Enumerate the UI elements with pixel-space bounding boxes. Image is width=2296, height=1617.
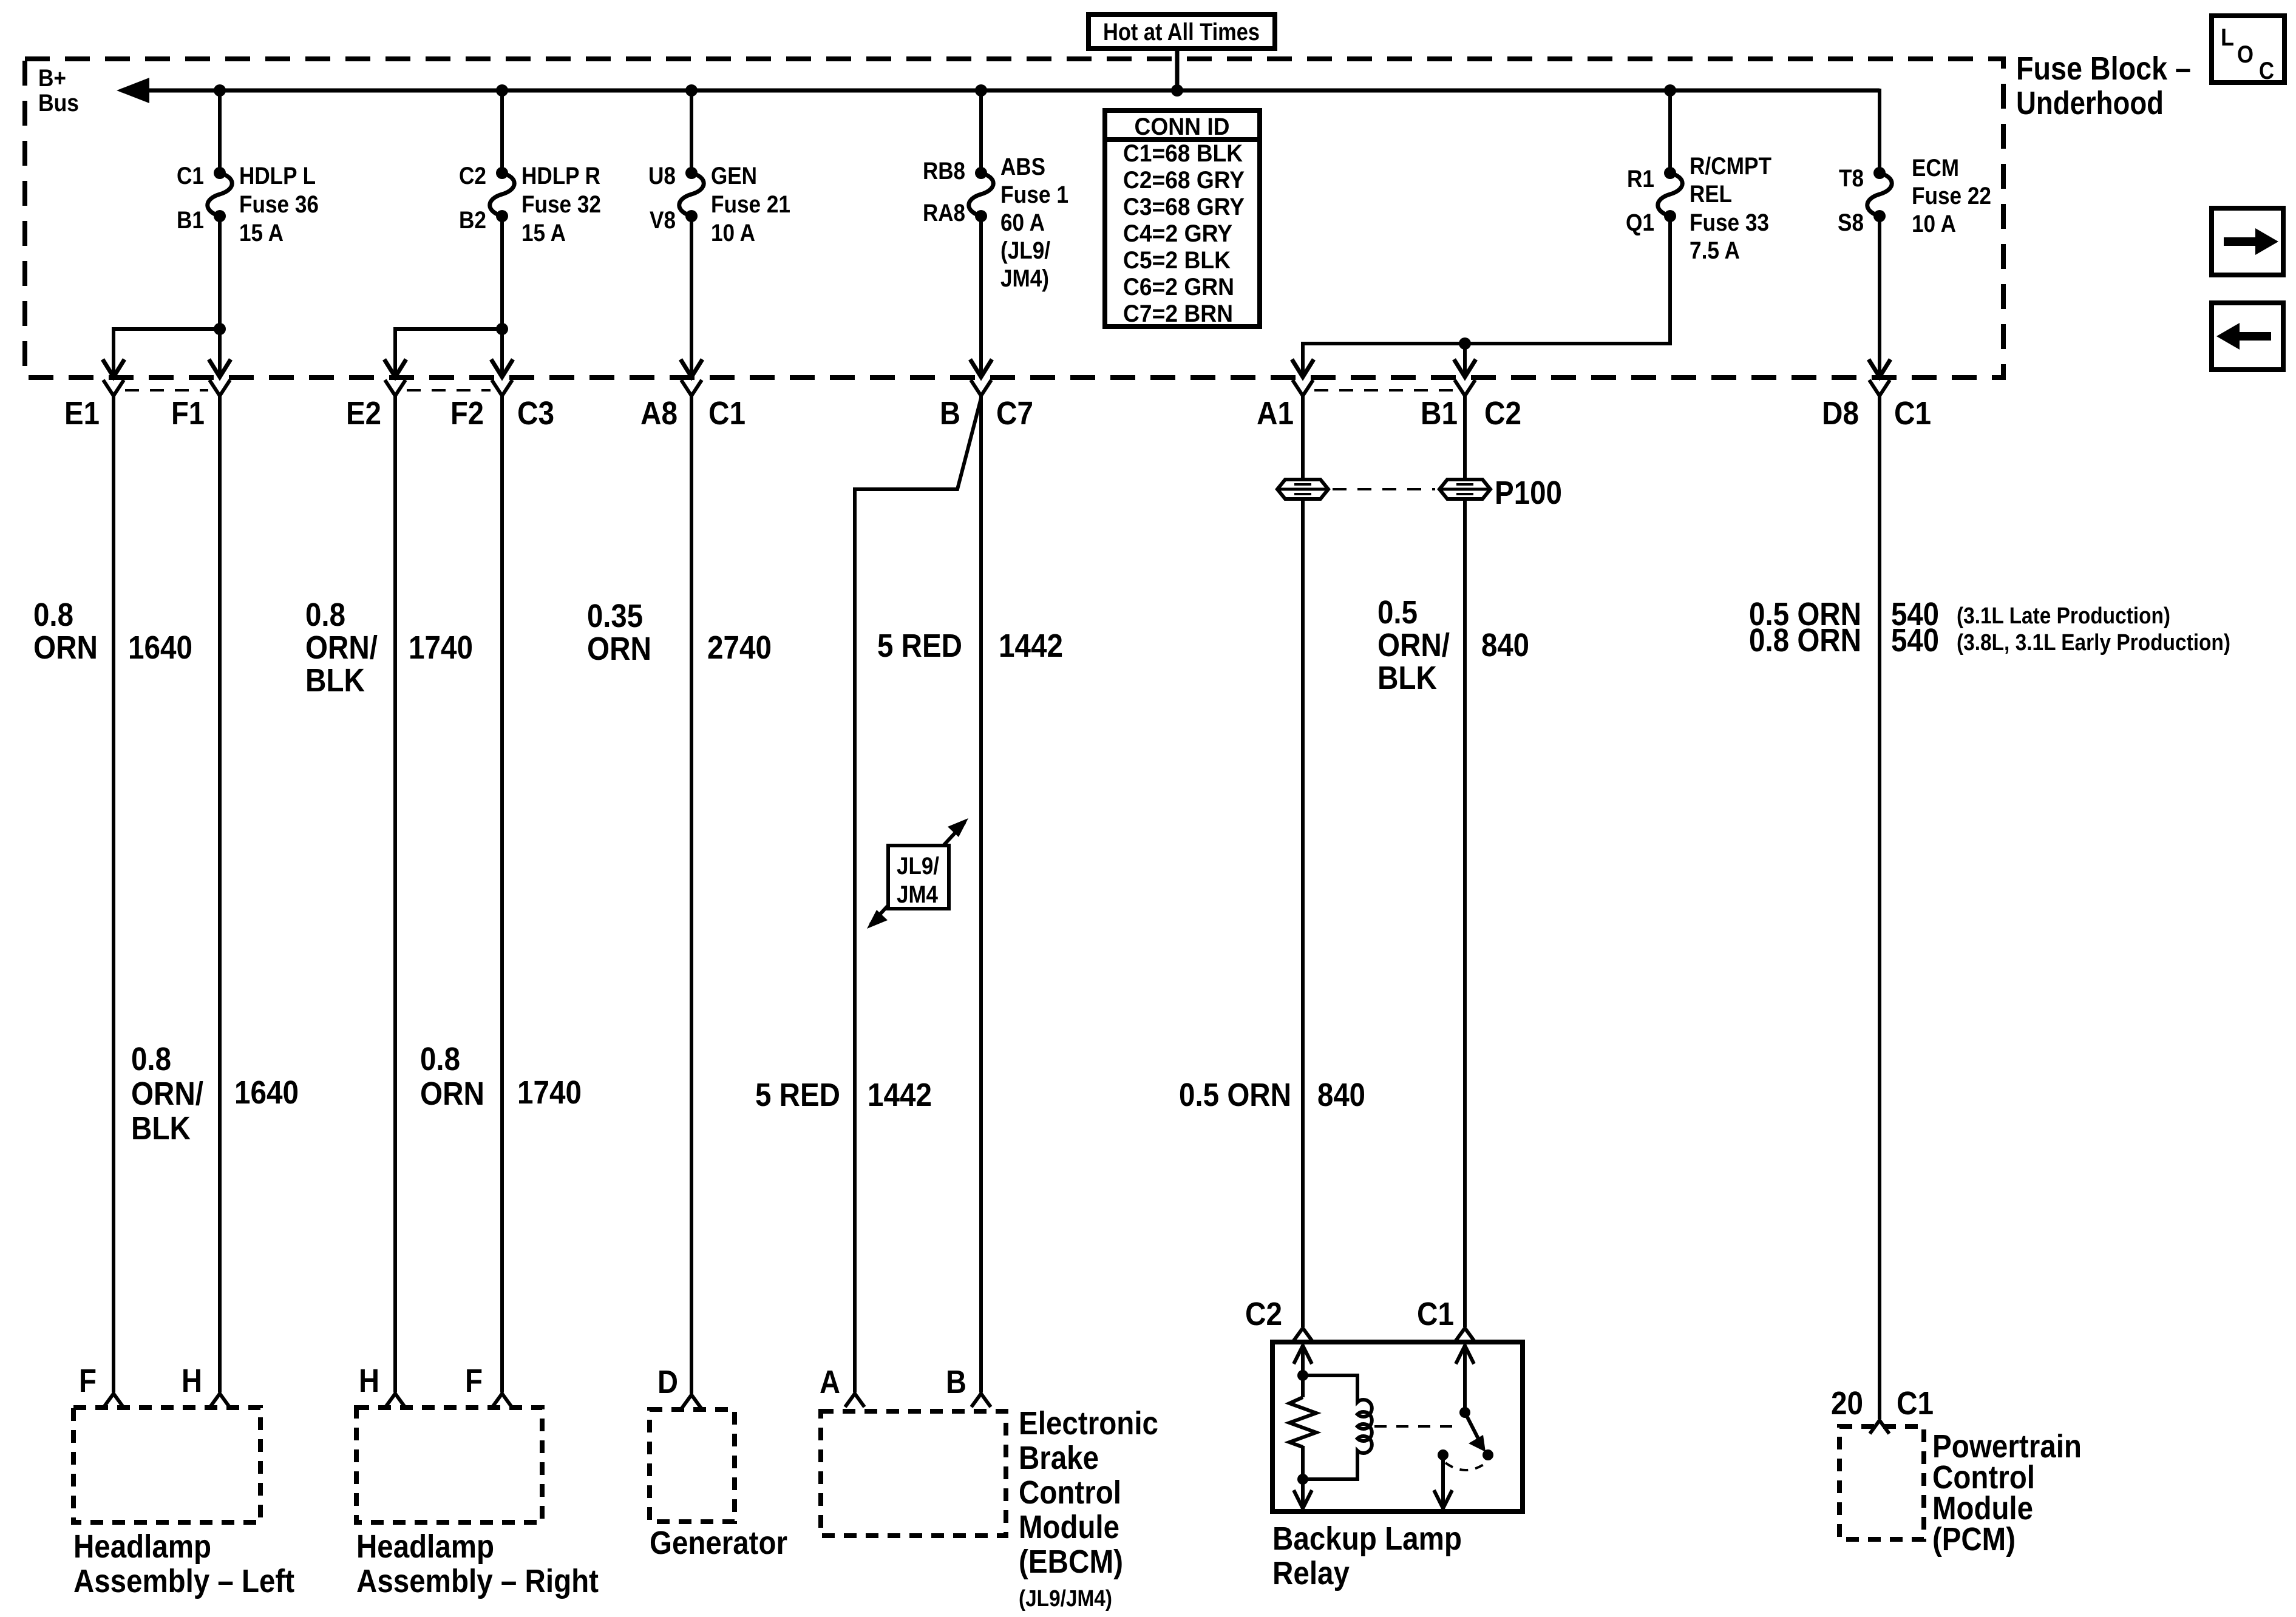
svg-text:A8: A8 xyxy=(640,395,678,432)
svg-text:Generator: Generator xyxy=(650,1525,787,1561)
B+ Bus arrowhead (left) xyxy=(117,78,149,103)
svg-text:(JL9/: (JL9/ xyxy=(1000,237,1050,264)
svg-text:ORN/: ORN/ xyxy=(305,629,378,666)
svg-text:1442: 1442 xyxy=(868,1077,932,1113)
wire 1442 branch jog to EBCM A xyxy=(855,398,981,1392)
svg-text:H: H xyxy=(182,1363,202,1399)
connector F2 (female) xyxy=(492,380,512,396)
EBCM dashed box xyxy=(821,1411,1006,1536)
svg-text:Bus: Bus xyxy=(38,90,79,117)
svg-text:0.8: 0.8 xyxy=(420,1041,460,1077)
svg-text:0.8: 0.8 xyxy=(305,597,345,633)
svg-text:H: H xyxy=(359,1363,379,1399)
svg-text:C5=2 BLK: C5=2 BLK xyxy=(1123,247,1231,274)
svg-text:1442: 1442 xyxy=(999,628,1063,664)
svg-text:840: 840 xyxy=(1481,627,1529,663)
svg-text:C1: C1 xyxy=(1417,1296,1454,1332)
pin 20 PCM (male) xyxy=(1870,1420,1889,1434)
relay coil-side pin wire with arrows xyxy=(1301,1345,1305,1397)
svg-text:Headlamp: Headlamp xyxy=(73,1528,211,1565)
wire 1640 E1 to headlamp left F xyxy=(112,396,115,1392)
svg-text:C2: C2 xyxy=(1245,1296,1282,1332)
connector B1 (female) xyxy=(1455,380,1475,396)
svg-text:Fuse 21: Fuse 21 xyxy=(711,191,790,218)
wire arrowhead into fuse block border at x=1616 xyxy=(970,359,992,377)
page-back arrow box xyxy=(2212,303,2283,370)
svg-text:P100: P100 xyxy=(1495,475,1562,511)
svg-text:5 RED: 5 RED xyxy=(755,1077,840,1113)
svg-text:E1: E1 xyxy=(64,395,100,432)
connector B/C7 (female) xyxy=(971,380,991,396)
svg-text:BLK: BLK xyxy=(1377,660,1437,696)
svg-text:1740: 1740 xyxy=(517,1074,582,1111)
connector F1 (female) xyxy=(209,380,230,396)
page-forward arrow box xyxy=(2212,208,2283,275)
svg-text:1640: 1640 xyxy=(128,629,192,666)
svg-text:0.8: 0.8 xyxy=(33,597,73,633)
svg-text:540: 540 xyxy=(1891,622,1939,659)
svg-text:R/CMPT: R/CMPT xyxy=(1690,153,1771,180)
svg-text:0.5 ORN: 0.5 ORN xyxy=(1179,1077,1291,1113)
svg-text:C4=2 GRY: C4=2 GRY xyxy=(1123,220,1232,247)
svg-text:60 A: 60 A xyxy=(1000,209,1045,236)
wire bus corner to ECM fuse xyxy=(1878,89,1881,173)
svg-text:ECM: ECM xyxy=(1912,155,1959,181)
LOC reference box xyxy=(2212,16,2284,83)
node: relay coil bottom junction xyxy=(1297,1474,1308,1485)
svg-text:C1: C1 xyxy=(177,163,204,189)
P100 pass-through grommet x=2146 xyxy=(1277,480,1328,499)
svg-text:C3: C3 xyxy=(517,395,554,432)
svg-text:10 A: 10 A xyxy=(711,220,755,246)
wire 840 A1 to backup lamp relay C2 xyxy=(1301,396,1305,480)
node: bus junction dot x=827 xyxy=(496,84,508,97)
connector E2 (female) xyxy=(385,380,406,396)
svg-text:B1: B1 xyxy=(1421,395,1458,432)
Fuse Block - Underhood dashed boundary xyxy=(25,59,2003,378)
wire branch to E1 xyxy=(114,329,220,377)
svg-text:C3=68 GRY: C3=68 GRY xyxy=(1123,194,1245,220)
wire arrowhead into fuse block border at x=3096 xyxy=(1869,359,1890,377)
svg-text:(3.1L Late Production): (3.1L Late Production) xyxy=(1957,603,2170,629)
wire arrowhead into fuse block border at x=1139 xyxy=(681,359,702,377)
svg-text:5 RED: 5 RED xyxy=(877,628,962,664)
svg-text:ORN: ORN xyxy=(33,629,98,666)
JL9/JM4 applicability arrow xyxy=(871,822,965,924)
svg-text:S8: S8 xyxy=(1838,209,1864,236)
connector pair dashed link A1-B1 xyxy=(1314,389,1453,392)
node: junction dot hot feed on bus xyxy=(1171,84,1183,97)
svg-text:C1: C1 xyxy=(1897,1385,1934,1422)
svg-text:Fuse 1: Fuse 1 xyxy=(1000,181,1068,208)
Generator dashed box xyxy=(650,1409,735,1522)
wire bus to GEN fuse xyxy=(690,90,693,173)
CONN ID table box xyxy=(1105,110,1260,327)
svg-text:Fuse 32: Fuse 32 xyxy=(521,191,601,218)
svg-text:JM4: JM4 xyxy=(897,881,939,908)
svg-text:ORN/: ORN/ xyxy=(1377,627,1450,663)
node: fuse 32 output junction xyxy=(496,323,508,335)
fuse HDLP R C2/B2 xyxy=(459,163,601,246)
svg-text:Module: Module xyxy=(1019,1509,1119,1545)
Hot at All Times box xyxy=(1089,15,1275,49)
svg-text:(3.8L, 3.1L Early Production): (3.8L, 3.1L Early Production) xyxy=(1957,630,2230,656)
node: bus junction dot x=2751 xyxy=(1664,84,1676,97)
node: bus junction dot x=1139 xyxy=(685,84,698,97)
svg-text:B: B xyxy=(940,395,960,432)
wire from Hot at All Times box to B+ bus xyxy=(1175,49,1180,90)
wire fuse 21 output xyxy=(690,216,693,377)
node: junction dot on A1/B1 feed xyxy=(1459,337,1471,350)
wire branch to E2 xyxy=(395,329,502,377)
svg-text:Backup Lamp: Backup Lamp xyxy=(1272,1520,1462,1557)
svg-text:GEN: GEN xyxy=(711,163,757,189)
wire arrowhead into fuse block border at x=651 xyxy=(384,359,406,377)
svg-text:B+: B+ xyxy=(38,65,66,92)
svg-text:BLK: BLK xyxy=(131,1110,191,1147)
svg-text:C2: C2 xyxy=(1484,395,1521,432)
P100 dashed link between grommets xyxy=(1333,488,1435,490)
wire bus to HDLP L fuse xyxy=(218,90,222,173)
svg-text:A: A xyxy=(820,1364,840,1400)
svg-text:Assembly – Right: Assembly – Right xyxy=(356,1563,599,1599)
svg-text:Fuse 22: Fuse 22 xyxy=(1912,183,1991,209)
PCM dashed box xyxy=(1839,1426,1924,1539)
fuse HDLP L C1/B1 xyxy=(177,163,319,246)
wire arrowhead into fuse block border at x=2413 xyxy=(1454,359,1476,377)
svg-text:T8: T8 xyxy=(1839,165,1864,192)
svg-text:Relay: Relay xyxy=(1272,1555,1350,1592)
wire branch to B1 xyxy=(1463,344,1467,377)
node: bus junction dot x=362 xyxy=(214,84,226,97)
svg-text:0.8 ORN: 0.8 ORN xyxy=(1749,622,1861,659)
pin B EBCM (male) xyxy=(971,1394,991,1407)
Headlamp Assembly - Left dashed box xyxy=(73,1408,260,1522)
svg-text:REL: REL xyxy=(1690,181,1732,208)
svg-text:20: 20 xyxy=(1831,1385,1863,1422)
svg-text:BLK: BLK xyxy=(305,662,365,699)
svg-text:Fuse 36: Fuse 36 xyxy=(239,191,319,218)
svg-text:(PCM): (PCM) xyxy=(1932,1521,2016,1558)
svg-text:F2: F2 xyxy=(450,395,484,432)
svg-text:0.35: 0.35 xyxy=(587,598,643,634)
svg-text:RA8: RA8 xyxy=(923,200,965,226)
resistor (relay suppression) xyxy=(1289,1397,1316,1447)
svg-text:7.5 A: 7.5 A xyxy=(1690,237,1740,264)
fuse R/CMPT R1/Q1 xyxy=(1626,153,1771,264)
svg-text:C: C xyxy=(2259,58,2274,84)
svg-text:Brake: Brake xyxy=(1019,1440,1099,1476)
node: relay coil top junction xyxy=(1297,1370,1308,1381)
svg-text:E2: E2 xyxy=(346,395,381,432)
svg-text:B: B xyxy=(946,1364,966,1400)
svg-text:F1: F1 xyxy=(171,395,205,432)
node: relay moving contact xyxy=(1483,1449,1493,1460)
svg-text:ORN: ORN xyxy=(587,631,651,667)
B+ Bus wire (horizontal) xyxy=(121,89,1880,93)
svg-text:ABS: ABS xyxy=(1000,154,1045,180)
svg-text:B1: B1 xyxy=(177,207,204,234)
wire bus to ABS fuse xyxy=(979,90,983,173)
pin A EBCM (male) xyxy=(845,1394,864,1407)
connector D8 (female) xyxy=(1869,380,1890,396)
svg-text:A1: A1 xyxy=(1257,395,1294,432)
fuse ECM T8/S8 xyxy=(1838,155,1991,237)
svg-text:15 A: 15 A xyxy=(521,220,566,246)
connector A1 (female) xyxy=(1292,380,1313,396)
connector E1 (female) xyxy=(103,380,124,396)
svg-text:D8: D8 xyxy=(1822,395,1859,432)
wire 1640 F1 to headlamp left H xyxy=(218,396,222,1392)
svg-text:JM4): JM4) xyxy=(1000,265,1049,292)
wire 1442 B/C7 to EBCM B xyxy=(979,396,983,1392)
svg-text:ORN: ORN xyxy=(420,1076,484,1112)
svg-text:Hot at All Times: Hot at All Times xyxy=(1103,19,1260,46)
svg-text:U8: U8 xyxy=(648,163,676,189)
svg-text:L: L xyxy=(2221,24,2234,51)
svg-text:F: F xyxy=(465,1363,483,1399)
wire 540 D8 to PCM pin 20 xyxy=(1878,396,1881,1419)
Headlamp Assembly - Right dashed box xyxy=(356,1408,542,1522)
svg-text:Headlamp: Headlamp xyxy=(356,1528,494,1565)
wire 2740 A8 to generator D xyxy=(690,396,693,1394)
relay output wire with arrow xyxy=(1441,1455,1445,1509)
svg-text:V8: V8 xyxy=(650,207,676,234)
svg-text:C1=68 BLK: C1=68 BLK xyxy=(1123,140,1243,167)
wire fuse 36 output xyxy=(218,216,222,377)
JL9/JM4 flag box xyxy=(888,846,949,909)
svg-text:CONN ID: CONN ID xyxy=(1135,114,1230,140)
svg-text:Underhood: Underhood xyxy=(2016,85,2164,121)
svg-text:RB8: RB8 xyxy=(923,158,965,185)
svg-text:10 A: 10 A xyxy=(1912,211,1956,237)
svg-text:1640: 1640 xyxy=(234,1074,299,1111)
svg-text:0.8: 0.8 xyxy=(131,1041,171,1077)
svg-text:2740: 2740 xyxy=(707,629,772,666)
pin D generator (male) xyxy=(682,1395,701,1408)
wire fuse 32 output xyxy=(500,216,504,377)
connector A8 (female) xyxy=(681,380,702,396)
fuse GEN U8/V8 xyxy=(648,163,790,246)
svg-text:C7: C7 xyxy=(996,395,1033,432)
P100 pass-through grommet x=2413 xyxy=(1439,480,1490,499)
svg-text:O: O xyxy=(2237,41,2254,68)
svg-text:ORN/: ORN/ xyxy=(131,1076,203,1112)
Backup Lamp Relay box xyxy=(1272,1342,1523,1511)
svg-text:C6=2 GRN: C6=2 GRN xyxy=(1123,274,1234,300)
wire fuse 33 output to A1/B1 feed xyxy=(1303,216,1670,377)
svg-text:Control: Control xyxy=(1019,1474,1121,1511)
node: relay stationary contact xyxy=(1438,1449,1449,1460)
wire bus to HDLP R fuse xyxy=(500,90,504,173)
relay coil-to-switch dashed link xyxy=(1374,1425,1454,1428)
wire arrowhead into fuse block border at x=2146 xyxy=(1292,359,1314,377)
wire arrowhead into fuse block border at x=187 xyxy=(103,359,124,377)
svg-text:1740: 1740 xyxy=(409,629,473,666)
pin F headlamp left (male) xyxy=(104,1394,123,1407)
svg-text:0.5: 0.5 xyxy=(1377,594,1418,631)
svg-text:C1: C1 xyxy=(708,395,746,432)
relay switch dashed travel arc xyxy=(1445,1463,1486,1470)
wire fuse 22 output xyxy=(1878,216,1881,377)
pin H headlamp right (male) xyxy=(385,1394,405,1407)
svg-text:D: D xyxy=(657,1364,678,1400)
node: bus junction dot x=1616 xyxy=(975,84,987,97)
pin C1 relay (male) xyxy=(1455,1328,1475,1341)
wire fuse 1 output xyxy=(979,216,983,377)
svg-text:Q1: Q1 xyxy=(1626,209,1654,236)
svg-text:(EBCM): (EBCM) xyxy=(1019,1544,1123,1580)
connector pair dashed link E1-F1 xyxy=(125,389,208,392)
pin F headlamp right (male) xyxy=(492,1394,512,1407)
svg-text:JL9/: JL9/ xyxy=(897,853,939,880)
wire 840 B1 to backup lamp relay C1 xyxy=(1463,396,1467,480)
connector pair dashed link E2-F2 xyxy=(407,389,491,392)
wire 1740 F2 to headlamp right F xyxy=(500,396,504,1392)
svg-text:HDLP R: HDLP R xyxy=(521,163,600,189)
svg-text:Fuse 33: Fuse 33 xyxy=(1690,209,1769,236)
svg-text:Electronic: Electronic xyxy=(1019,1405,1158,1442)
relay switch moving arm xyxy=(1465,1412,1479,1441)
fuse ABS RB8/RA8 xyxy=(923,154,1068,292)
node: fuse 36 output junction xyxy=(214,323,226,335)
svg-text:840: 840 xyxy=(1317,1077,1365,1113)
svg-text:C2=68 GRY: C2=68 GRY xyxy=(1123,167,1245,194)
svg-text:R1: R1 xyxy=(1627,166,1654,192)
relay switch common wire with arrow xyxy=(1463,1345,1467,1412)
svg-text:C7=2 BRN: C7=2 BRN xyxy=(1123,300,1233,327)
svg-text:HDLP L: HDLP L xyxy=(239,163,316,189)
wire 1740 E2 to headlamp right H xyxy=(393,396,397,1392)
svg-text:C1: C1 xyxy=(1894,395,1931,432)
svg-text:F: F xyxy=(79,1363,97,1399)
pin H headlamp left (male) xyxy=(210,1394,229,1407)
svg-text:15 A: 15 A xyxy=(239,220,284,246)
wire arrowhead into fuse block border at x=827 xyxy=(491,359,513,377)
svg-text:B2: B2 xyxy=(459,207,486,234)
svg-text:(JL9/JM4): (JL9/JM4) xyxy=(1019,1586,1112,1612)
svg-text:Fuse Block –: Fuse Block – xyxy=(2016,50,2191,87)
svg-text:C2: C2 xyxy=(459,163,486,189)
wire arrowhead into fuse block border at x=362 xyxy=(209,359,231,377)
svg-text:Assembly – Left: Assembly – Left xyxy=(73,1563,294,1599)
relay coil xyxy=(1303,1375,1372,1479)
pin C2 relay (male) xyxy=(1293,1328,1313,1341)
node: relay switch pivot xyxy=(1459,1407,1470,1418)
wire bus to R/CMPT REL fuse xyxy=(1668,90,1672,173)
